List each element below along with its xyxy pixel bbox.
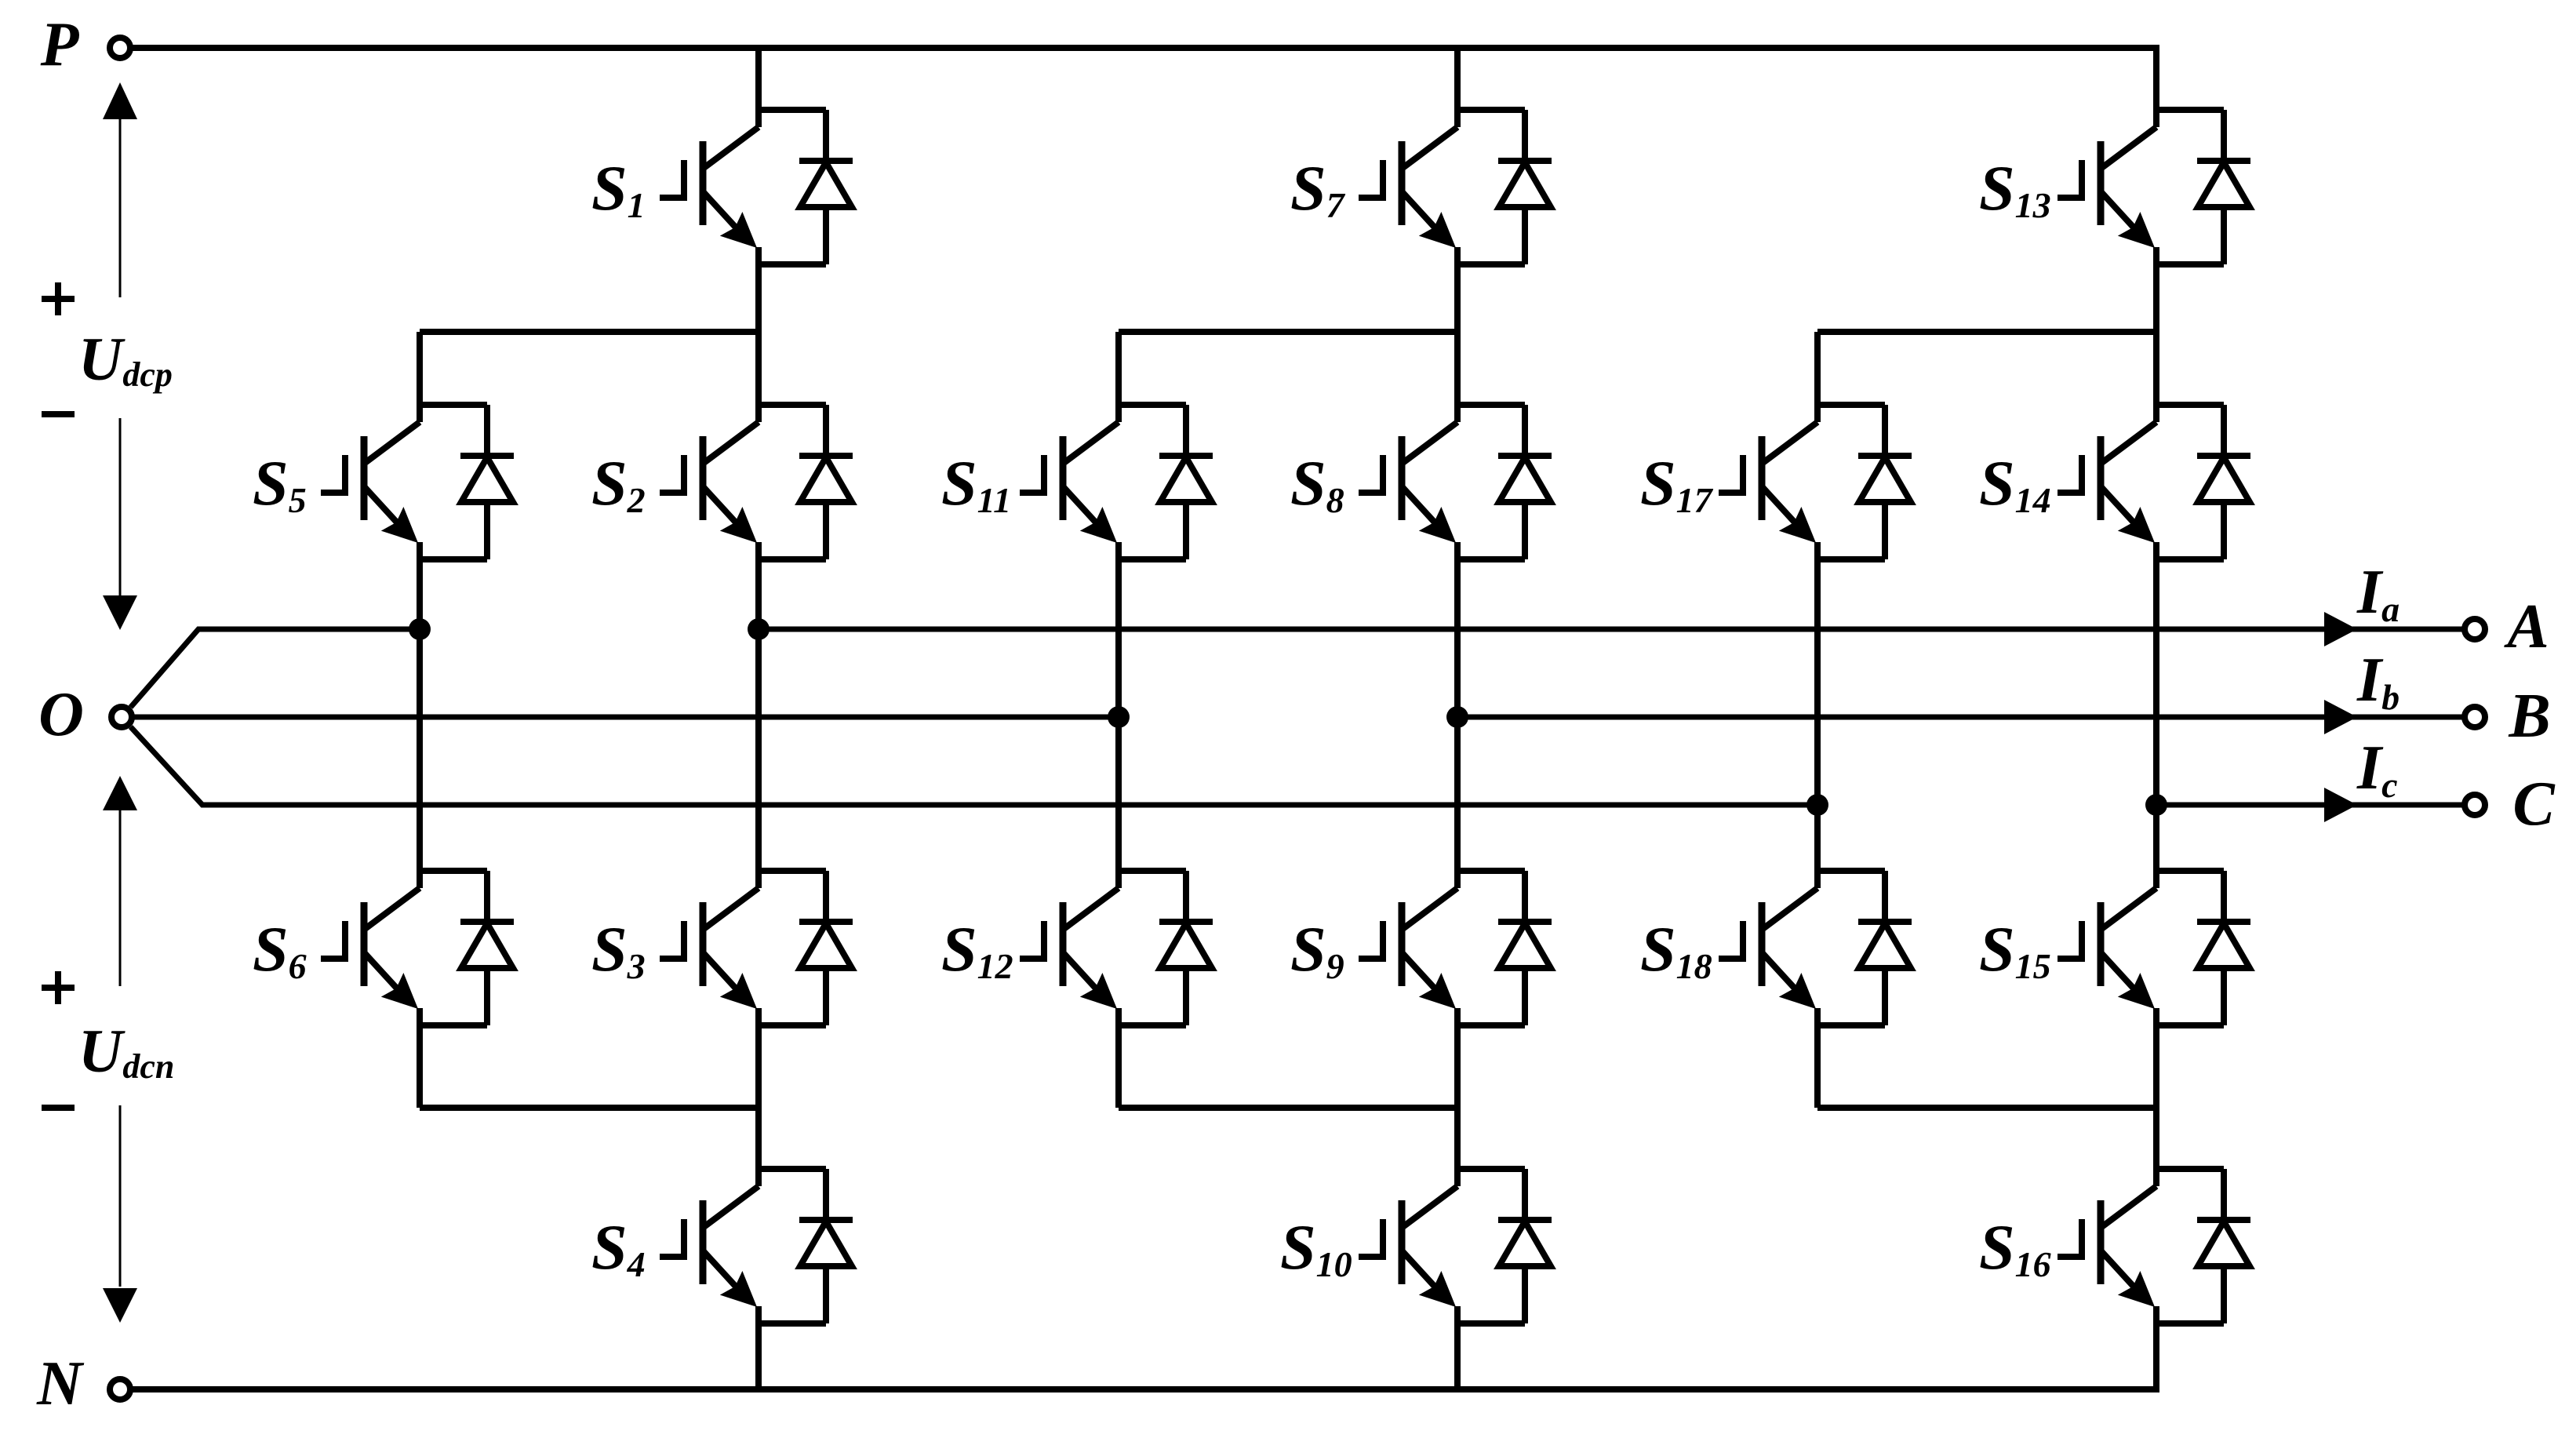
transistor S9 (IGBT with antiparallel diode) — [1359, 871, 1552, 1025]
wire: phase A clamp branch bottom horizontal — [420, 1105, 759, 1111]
node: phase B output junction on clamp leg — [1108, 706, 1130, 728]
svg-text:C: C — [2512, 770, 2556, 839]
wire: phase C clamp leg lower — [1814, 1025, 1821, 1108]
svg-text:B: B — [2508, 682, 2550, 751]
transistor S11 (IGBT with antiparallel diode) — [1020, 405, 1213, 559]
wire: phase A output line from node O to terminal A — [131, 629, 2464, 708]
wire: phase A main leg lower section — [755, 1025, 762, 1169]
wire: phase A clamp leg lower — [417, 1025, 423, 1108]
transistor S3 (IGBT with antiparallel diode) — [660, 871, 853, 1025]
wire: phase A clamp branch top horizontal — [420, 329, 759, 335]
wire: phase C clamp leg to output node — [1814, 559, 1821, 871]
wire: P positive DC rail — [132, 48, 2156, 110]
transistor S12 (IGBT with antiparallel diode) — [1020, 871, 1213, 1025]
transistor S13 (IGBT with antiparallel diode) — [2058, 110, 2250, 264]
terminal O (open circle) — [111, 707, 132, 727]
terminal A (open circle) — [2465, 619, 2485, 639]
wire: phase A clamp leg to output node — [417, 559, 423, 871]
current arrow Ic — [2324, 788, 2357, 822]
terminal N (open circle) — [110, 1379, 130, 1400]
wire: phase B clamp leg lower — [1115, 1025, 1122, 1108]
wire: phase C main leg, P rail to S-top — [2153, 48, 2159, 110]
wire: phase C main leg, S-bottom to N rail — [2153, 1323, 2159, 1389]
node: phase A output junction on clamp leg — [409, 618, 431, 640]
node: phase B output junction on main leg — [1446, 706, 1468, 728]
wire: phase C main leg lower section — [2153, 1025, 2159, 1169]
transistor S2 (IGBT with antiparallel diode) — [660, 405, 853, 559]
transistor S1 (IGBT with antiparallel diode) — [660, 110, 853, 264]
label + (Udcn positive) — [42, 971, 75, 1004]
label minus (Udcn negative) — [42, 1105, 75, 1111]
label minus (Udcp negative) — [42, 411, 75, 417]
svg-text:O: O — [38, 680, 84, 749]
wire: phase B main leg lower section — [1454, 1025, 1461, 1169]
svg-text:P: P — [40, 10, 80, 79]
terminal P (open circle) — [110, 38, 130, 58]
wire: phase B clamp branch bottom horizontal — [1119, 1105, 1457, 1111]
wire: phase A main leg, S-bottom to N rail — [755, 1323, 762, 1389]
transistor S15 (IGBT with antiparallel diode) — [2058, 871, 2250, 1025]
transistor S6 (IGBT with antiparallel diode) — [321, 871, 514, 1025]
wire: phase B clamp branch top horizontal — [1119, 329, 1457, 335]
node: phase A output junction on main leg — [748, 618, 770, 640]
wire: phase C main leg to output node — [2153, 559, 2159, 871]
current arrow Ib — [2324, 700, 2357, 734]
transistor S4 (IGBT with antiparallel diode) — [660, 1169, 853, 1323]
wire: phase C clamp branch bottom horizontal — [1817, 1105, 2156, 1111]
transistor S5 (IGBT with antiparallel diode) — [321, 405, 514, 559]
node: phase C output junction on clamp leg — [1806, 794, 1828, 816]
wire: phase C clamp leg upper — [1814, 332, 1821, 405]
transistor S8 (IGBT with antiparallel diode) — [1359, 405, 1552, 559]
svg-text:A: A — [2503, 592, 2549, 661]
svg-text:N: N — [36, 1349, 85, 1418]
node: phase C output junction on main leg — [2145, 794, 2167, 816]
transistor S10 (IGBT with antiparallel diode) — [1359, 1169, 1552, 1323]
wire: phase B main leg, P rail to S-top — [1454, 48, 1461, 110]
wire: phase C output line from node O to terminal C — [131, 727, 2464, 806]
measurement arrow for Udcp (double-headed vertical) — [103, 82, 137, 630]
current arrow Ia — [2324, 612, 2357, 646]
wire: phase B main leg, S-bottom to N rail — [1454, 1323, 1461, 1389]
wire: phase B main leg to output node — [1454, 559, 1461, 871]
wire: phase B clamp leg to output node — [1115, 559, 1122, 871]
wire: phase B output line from node O to terminal B — [133, 715, 2463, 720]
measurement arrow for Udcn (double-headed vertical) — [103, 776, 137, 1323]
transistor S16 (IGBT with antiparallel diode) — [2058, 1169, 2250, 1323]
wire: phase A clamp leg upper — [417, 332, 423, 405]
transistor S14 (IGBT with antiparallel diode) — [2058, 405, 2250, 559]
terminal C (open circle) — [2465, 795, 2485, 815]
wire: phase C clamp branch top horizontal — [1817, 329, 2156, 335]
wire: phase B clamp leg upper — [1115, 332, 1122, 405]
wire: phase A main leg, P rail to S-top — [755, 48, 762, 110]
wire: N negative DC rail — [132, 1323, 2156, 1389]
wire: phase C main leg between upper switches (clamp tap) — [2153, 264, 2159, 405]
terminal B (open circle) — [2465, 707, 2485, 727]
wire: phase A main leg between upper switches (clamp tap) — [755, 264, 762, 405]
wire: phase A main leg to output node — [755, 559, 762, 871]
transistor S7 (IGBT with antiparallel diode) — [1359, 110, 1552, 264]
transistor S18 (IGBT with antiparallel diode) — [1719, 871, 1912, 1025]
label + (Udcp positive) — [42, 282, 75, 315]
wire: phase B main leg between upper switches (clamp tap) — [1454, 264, 1461, 405]
transistor S17 (IGBT with antiparallel diode) — [1719, 405, 1912, 559]
